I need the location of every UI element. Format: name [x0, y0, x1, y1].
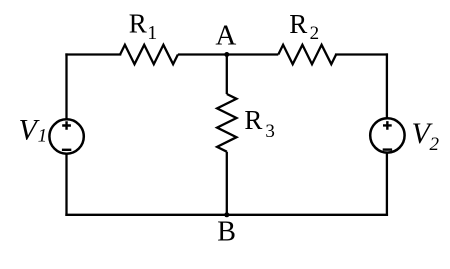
svg-text:3: 3 [265, 121, 275, 142]
svg-text:R: R [289, 9, 307, 39]
wire left vertical upper (V1 to top-left corner) [65, 55, 67, 118]
svg-text:R: R [129, 9, 147, 39]
wire right vertical lower (V2 to bottom-right corner) [386, 154, 388, 215]
wire top-left segment [67, 53, 121, 55]
wire right vertical upper (top-right corner to V2) [386, 55, 388, 117]
wire middle vertical upper (node A to R3) [226, 55, 228, 95]
svg-text:R: R [244, 105, 262, 135]
voltage source V1 circle [49, 119, 83, 153]
wire top-right segment [336, 53, 387, 55]
svg-text:1: 1 [38, 125, 48, 146]
svg-text:B: B [217, 216, 236, 247]
wire middle vertical lower (R3 to node B) [226, 152, 228, 215]
wire left vertical lower (bottom-left corner to V1) [65, 155, 67, 215]
node A junction dot [224, 52, 229, 57]
svg-text:1: 1 [147, 22, 157, 44]
voltage source V2 circle [370, 118, 404, 152]
V1 minus sign [62, 149, 71, 151]
wire bottom segment [67, 214, 387, 216]
resistor R2 [278, 45, 336, 64]
resistor R3 [217, 94, 236, 152]
node B junction dot [224, 212, 229, 217]
svg-text:2: 2 [430, 134, 440, 155]
svg-text:A: A [215, 20, 236, 52]
wire top segment (node A to R2) [227, 53, 278, 55]
resistor R1 [120, 45, 178, 64]
V2 minus sign [383, 148, 392, 150]
V2 plus sign [383, 121, 392, 130]
V1 plus sign [62, 121, 71, 130]
wire top-middle segment (R1 to node A) [178, 53, 227, 55]
svg-text:2: 2 [310, 23, 320, 44]
